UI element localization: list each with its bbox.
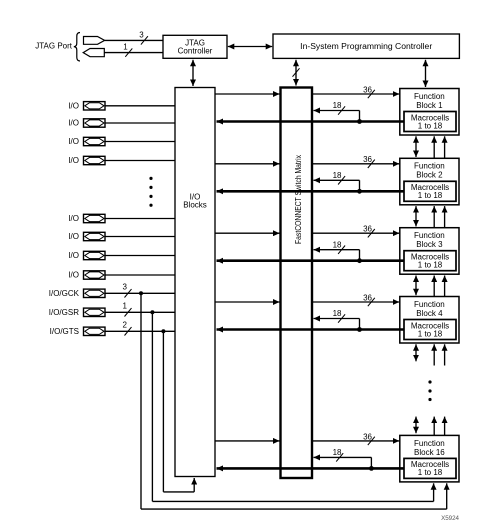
svg-text:FastCONNECT Switch Matrix: FastCONNECT Switch Matrix (294, 155, 303, 244)
bus width slash 18 (FB 2) (333, 171, 346, 185)
svg-text:1 to 18: 1 to 18 (418, 261, 443, 270)
Macrocells 1 to 18 of Function Block 4 (404, 320, 456, 340)
wire: GSR net down, across bottom, up into FB16 macrocells (152, 312, 433, 501)
wire: 18 feedback into matrix (FB 2) (314, 180, 360, 191)
svg-text:18: 18 (333, 309, 342, 318)
Function Block 2 (400, 158, 459, 205)
wire: JTAG Controller to ISP controller (bidirectional) (228, 46, 272, 48)
Macrocells 1 to 18 of Function Block 3 (404, 251, 456, 271)
junction: 18 feedback tap on macrocell bus (FB 1) (357, 119, 362, 124)
wire: I/O bidirectional arrows between FB 3 and FB 4 (416, 276, 445, 297)
FastCONNECT Switch Matrix (281, 88, 313, 479)
bus width slash 36 (FB 3) (363, 225, 375, 238)
svg-text:Controller: Controller (178, 46, 213, 55)
bus width slash 36 (FB 2) (363, 155, 375, 168)
wire: 36 inputs from I/O Blocks into matrix (FB 16) (215, 440, 280, 442)
svg-text:18: 18 (333, 171, 342, 180)
wire: JTAG Controller to I/O Blocks (bidirectional) (192, 60, 194, 86)
wire: pin I/O row 5 to I/O Blocks (105, 218, 175, 220)
svg-text:1: 1 (123, 43, 128, 52)
svg-text:3: 3 (139, 30, 144, 39)
thick bus: macrocell outputs of FB 2 to I/O Blocks (217, 190, 405, 193)
I/O Blocks (175, 88, 215, 477)
I/O pad pin I/O row 6 (68, 232, 105, 241)
bus width slash 36 (FB 1) (363, 85, 375, 98)
wire: 36 signals matrix to Function Block 16 (313, 440, 399, 442)
Macrocells 1 to 18 of Function Block 16 (404, 458, 456, 478)
I/O pad pin I/O row 2 (68, 119, 105, 128)
wire: 36 signals matrix to Function Block 3 (313, 232, 399, 234)
svg-text:36: 36 (363, 432, 372, 441)
wire: 18 feedback into matrix (FB 16) (314, 457, 372, 468)
bus width slash 36 (FB 4) (363, 293, 375, 306)
svg-text:Blocks: Blocks (183, 201, 207, 210)
wire: 36 inputs from I/O Blocks into matrix (FB 4) (215, 301, 280, 303)
wire: 36 inputs from I/O Blocks into matrix (FB 1) (215, 93, 280, 95)
svg-text:36: 36 (363, 155, 372, 164)
I/O pad pin I/O row 7 (68, 251, 105, 260)
JTAG Controller U1 (163, 35, 227, 58)
wire: GCK net down, across bottom, up into FB16 macrocells (141, 293, 447, 509)
junction: 18 feedback tap on macrocell bus (FB 4) (357, 327, 362, 332)
svg-text:Function: Function (414, 439, 445, 448)
svg-text:3: 3 (123, 283, 128, 292)
wire: I/O bidirectional arrows between FB 2 and FB 3 (416, 206, 445, 228)
wire: 36 inputs from I/O Blocks into matrix (FB 3) (215, 232, 280, 234)
Macrocells 1 to 18 of Function Block 1 (404, 112, 456, 132)
bus width slash 36 (FB 16) (363, 432, 375, 445)
ellipsis dots between Function Block 4 and 16 (428, 380, 431, 401)
svg-text:1 to 18: 1 to 18 (418, 191, 443, 200)
wire: 36 signals matrix to Function Block 1 (313, 93, 399, 95)
I/O pad pin I/O row 3 (68, 137, 105, 146)
In-System Programming Controller (273, 34, 459, 58)
wire: pin I/O/GTS row 11 to I/O Blocks (105, 330, 175, 332)
JTAG Port brace (74, 33, 80, 62)
Function Block 16 (400, 435, 459, 482)
wire: I/O arrows above Function Block 16 (416, 417, 445, 436)
junction: 18 feedback tap on macrocell bus (FB 16) (369, 466, 374, 471)
svg-text:X5924: X5924 (441, 515, 459, 522)
svg-text:I/O: I/O (68, 232, 79, 241)
bus width slash 3 on JTAG input (139, 30, 148, 44)
wire: TDO from JTAG Controller (104, 52, 163, 54)
thick bus: macrocell outputs of FB 3 to I/O Blocks (217, 259, 405, 262)
svg-text:Block 3: Block 3 (416, 240, 443, 249)
wire: pin I/O/GCK row 9 to I/O Blocks (105, 292, 175, 294)
svg-text:1 to 18: 1 to 18 (418, 121, 443, 130)
svg-text:36: 36 (363, 85, 372, 94)
junction: GTS tap (161, 329, 165, 333)
svg-text:1 to 18: 1 to 18 (418, 468, 443, 477)
svg-text:I/O: I/O (68, 101, 79, 110)
I/O pad pin I/O/GSR row 10 (49, 308, 105, 317)
junction: GCK tap (139, 291, 143, 295)
wire: GTS net down and up into I/O Blocks (163, 331, 194, 492)
wire: 18 feedback into matrix (FB 3) (314, 250, 360, 261)
svg-text:I/O: I/O (68, 271, 79, 280)
svg-text:2: 2 (123, 321, 128, 330)
wire: pin I/O row 1 to I/O Blocks (105, 105, 175, 107)
Function Block 1 (400, 89, 459, 136)
JTAG input buffer pin (TCK/TMS/TDI) (84, 37, 105, 45)
svg-text:I/O/GSR: I/O/GSR (49, 308, 79, 317)
bus width slash 1 on GSR line (123, 302, 132, 317)
svg-text:Block 4: Block 4 (416, 309, 443, 318)
wire: pin I/O row 3 to I/O Blocks (105, 141, 175, 143)
Function Block 3 (400, 228, 459, 275)
svg-text:1 to 18: 1 to 18 (418, 329, 443, 338)
I/O pad pin I/O row 8 (68, 271, 105, 280)
thick bus: macrocell outputs of FB 16 to I/O Blocks (217, 467, 405, 470)
thick bus: macrocell outputs of FB 1 to I/O Blocks (217, 120, 405, 123)
I/O pad pin I/O/GCK row 9 (49, 289, 105, 298)
svg-text:Block 2: Block 2 (416, 171, 443, 180)
bus width slash 18 (FB 3) (333, 240, 346, 254)
svg-text:I/O: I/O (68, 156, 79, 165)
svg-text:I/O/GCK: I/O/GCK (49, 289, 80, 298)
wire: pin I/O row 6 to I/O Blocks (105, 236, 175, 238)
wire: 36 signals matrix to Function Block 4 (313, 301, 399, 303)
svg-text:36: 36 (363, 225, 372, 234)
JTAG output buffer pin (TDO) (83, 49, 104, 57)
junction: 18 feedback tap on macrocell bus (FB 3) (357, 258, 362, 263)
I/O pad pin I/O row 4 (68, 156, 105, 165)
wire: pin I/O row 4 to I/O Blocks (105, 160, 175, 162)
svg-text:Function: Function (414, 231, 445, 240)
wire: 36 inputs from I/O Blocks into matrix (FB 2) (215, 163, 280, 165)
svg-text:Block 1: Block 1 (416, 101, 443, 110)
wire: 18 feedback into matrix (FB 1) (314, 111, 360, 122)
svg-text:I/O: I/O (68, 137, 79, 146)
wire: 36 signals matrix to Function Block 2 (313, 163, 399, 165)
wire: pin I/O/GSR row 10 to I/O Blocks (105, 311, 175, 313)
wire: ISP controller to FastCONNECT matrix (bidirectional) (293, 60, 300, 86)
JTAG Port label (35, 42, 73, 51)
svg-text:1: 1 (123, 302, 128, 311)
svg-text:Function: Function (414, 92, 445, 101)
bus width slash 18 (FB 16) (333, 448, 344, 462)
bus width slash 1 on TDO (123, 43, 132, 57)
wire: pin I/O row 8 to I/O Blocks (105, 274, 175, 276)
I/O pad pin I/O row 5 (68, 214, 105, 223)
wire: pin I/O row 7 to I/O Blocks (105, 255, 175, 257)
svg-text:18: 18 (333, 240, 342, 249)
bus width slash 2 on GTS line (123, 321, 132, 336)
junction: GSR tap (150, 310, 154, 314)
svg-text:I/O: I/O (68, 214, 79, 223)
svg-text:I/O/GTS: I/O/GTS (50, 327, 79, 336)
svg-text:I/O: I/O (68, 119, 79, 128)
bus width slash 18 (FB 4) (333, 309, 346, 323)
Macrocells 1 to 18 of Function Block 2 (404, 181, 456, 201)
wire: pin I/O row 2 to I/O Blocks (105, 122, 175, 124)
bus width slash 18 (FB 1) (333, 101, 346, 115)
bus width slash 3 on GCK line (123, 283, 132, 298)
Function Block 4 (400, 297, 459, 344)
wire: I/O arrows below Function Block 4 (416, 344, 445, 365)
figure number X5924 (441, 515, 459, 522)
svg-text:JTAG Port: JTAG Port (35, 42, 73, 51)
wire: I/O bidirectional arrows between FB 1 and FB 2 (416, 136, 445, 158)
svg-text:18: 18 (333, 101, 342, 110)
svg-text:Function: Function (414, 300, 445, 309)
wire: ISP controller to Function Block 1 (bidirectional) (425, 60, 427, 87)
ellipsis dots between I/O pin groups (149, 177, 152, 207)
I/O pad pin I/O row 1 (68, 101, 105, 110)
svg-text:Function: Function (414, 162, 445, 171)
svg-text:Block 16: Block 16 (414, 448, 445, 457)
junction: 18 feedback tap on macrocell bus (FB 2) (357, 189, 362, 194)
thick bus: macrocell outputs of FB 4 to I/O Blocks (217, 328, 405, 331)
wire: JTAG in bus to JTAG Controller (105, 39, 163, 41)
svg-text:In-System Programming Controll: In-System Programming Controller (300, 42, 432, 51)
svg-text:36: 36 (363, 293, 372, 302)
svg-text:18: 18 (333, 448, 342, 457)
wire: 18 feedback into matrix (FB 4) (314, 319, 360, 330)
svg-text:I/O: I/O (68, 251, 79, 260)
I/O pad pin I/O/GTS row 11 (50, 327, 105, 336)
